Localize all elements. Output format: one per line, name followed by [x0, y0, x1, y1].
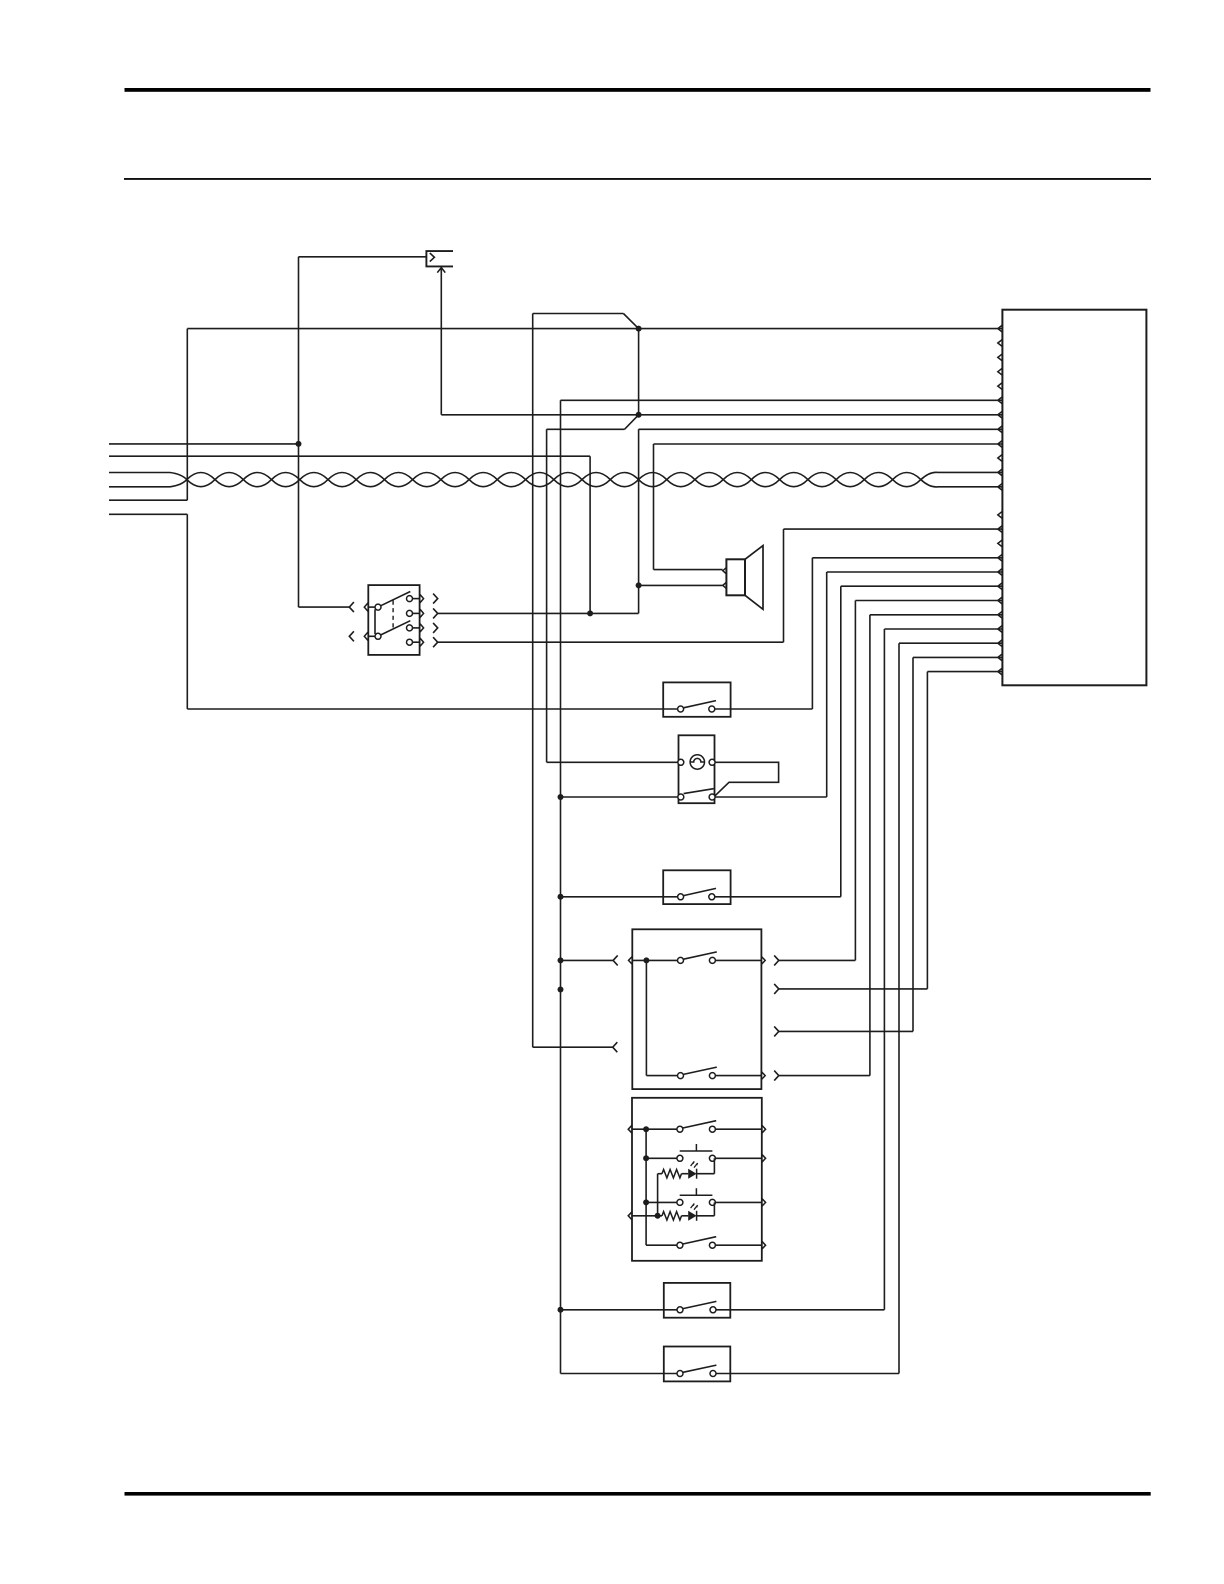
connector half relay out4 — [433, 637, 438, 647]
ignition contact top-right — [709, 759, 715, 765]
ignition lever — [684, 789, 714, 794]
S4 switch1 lever — [683, 952, 716, 959]
switch S6 lever — [683, 1301, 716, 1308]
LED D1 — [688, 1169, 696, 1179]
twisted pair strand B (pins 11/12) — [109, 472, 1002, 487]
relay in1 stub — [368, 606, 375, 608]
junction S4 inner bus — [643, 957, 649, 963]
LED D1 cathode bar — [696, 1169, 698, 1179]
wire S4 out1 to pin19 riser — [779, 959, 856, 961]
wire pin20 riser — [869, 615, 871, 1076]
connector half relay out3 — [433, 623, 438, 633]
S5 LED1 lead right — [697, 1173, 715, 1175]
S5 LED1 riser — [657, 1174, 659, 1216]
ignition key circle — [690, 755, 704, 769]
wire branch x546 horizontal — [547, 428, 625, 430]
S5 row D wire — [632, 1215, 662, 1217]
connector C1 pin 13 — [998, 511, 1003, 518]
wire switch S3 to pin18 riser — [715, 896, 841, 898]
resistor R1 — [662, 1170, 682, 1178]
junction pin1/bus — [636, 326, 642, 332]
relay throw contact 1 — [407, 596, 413, 602]
connector half relay in2 (unused) — [349, 631, 354, 641]
switch S6 contact b — [710, 1307, 716, 1313]
connector C1 pin 7 — [998, 411, 1003, 418]
relay throw contact 3 — [407, 625, 413, 631]
relay pole 2 contact — [375, 633, 381, 639]
S5 button B actuator — [680, 1144, 713, 1151]
bottom thick rule — [125, 1492, 1151, 1496]
wire pin 9 run — [654, 443, 1003, 445]
connector J1 chevron — [430, 253, 435, 262]
connector C1 pin 11 — [998, 469, 1003, 476]
wire S4 input 1 — [561, 959, 614, 961]
wire riser W2 left — [186, 514, 188, 709]
relay throw contact 4 — [407, 639, 413, 645]
S5 button C contact a — [677, 1199, 683, 1205]
junction pin7/bus — [636, 412, 642, 418]
connector C1 pin 5 — [998, 383, 1003, 390]
wire S4 input 2 — [533, 1046, 613, 1048]
wire pin 21 run — [884, 628, 1002, 630]
relay K1 pin out3 — [420, 623, 424, 632]
wire pin 24 run — [927, 671, 1002, 673]
S5 button B contact b — [709, 1155, 715, 1161]
ignition switch S2 body — [679, 735, 715, 803]
wire pin 17 run — [827, 571, 1003, 573]
relay K1 body — [368, 585, 419, 655]
S5 LED2 lead mid — [682, 1215, 689, 1217]
wire pin 7 run — [441, 414, 1002, 416]
S4 switch1 contact b — [709, 957, 715, 963]
wire riser feed2 down — [589, 456, 591, 613]
connector C1 pin 4 — [998, 368, 1003, 375]
top thin rule — [124, 178, 1151, 180]
wire pin 18 run — [841, 585, 1003, 587]
wire bus vertical upper — [638, 329, 640, 415]
wire switch S3 feed — [561, 896, 678, 898]
S5 pin out B — [762, 1154, 766, 1162]
connector C1 pin 10 — [998, 454, 1003, 461]
S4 row4 inner wire — [646, 1075, 677, 1077]
switch S1 contact a — [678, 706, 684, 712]
S5 pin in A — [628, 1125, 632, 1133]
S5 row A out stub — [715, 1128, 761, 1130]
junction x560 (spare tap) — [558, 987, 564, 993]
switch S3 lever — [684, 888, 717, 895]
wire pin 1 run — [187, 328, 1002, 330]
relay lever 1 — [381, 592, 411, 606]
speaker SP1 driver — [726, 559, 745, 595]
wire long riser x532 — [532, 314, 534, 1048]
arrowhead into J1 — [437, 268, 445, 273]
wire riser relay out4 — [783, 529, 785, 642]
wire relay out4 run — [438, 641, 784, 643]
switch S7 contact a — [677, 1371, 683, 1377]
wire speaker plus — [654, 569, 723, 571]
connector C1 pin 15 — [998, 540, 1003, 547]
connector C1 pin 19 — [998, 597, 1003, 604]
wire feed 2 (long run to relay net) — [109, 455, 590, 457]
S4 pin in1 — [629, 956, 633, 964]
LED D2 — [688, 1211, 696, 1221]
connector C1 pin 12 — [998, 483, 1003, 490]
junction S5 bus/rowC — [643, 1199, 649, 1205]
wire pin16 riser — [811, 558, 813, 709]
connector half relay out1 — [433, 594, 438, 604]
connector half S4 out4 — [774, 1071, 779, 1081]
wire pin 22 run — [899, 642, 1002, 644]
switch S3 contact b — [709, 894, 715, 900]
relay in2 stub — [368, 635, 375, 637]
wire switch S6 feed — [561, 1309, 678, 1311]
wire switch S6 to pin21 riser — [716, 1309, 884, 1311]
junction speaker negative — [636, 582, 642, 588]
S5 branch rowC to LED2 — [713, 1202, 715, 1215]
S5 row B wire — [646, 1157, 677, 1159]
connector C1 pin 22 — [998, 640, 1003, 647]
ignition contact bottom-right — [709, 794, 715, 800]
ignition contact top-left — [678, 759, 684, 765]
wire switch S7 to pin22 riser — [716, 1373, 899, 1375]
connector C1 pin 20 — [998, 611, 1003, 618]
wire ignition feed — [547, 761, 678, 763]
connector half S4 out2 — [774, 984, 779, 994]
S5 switch E contact a — [677, 1242, 683, 1248]
junction feed2/relay out2 — [587, 610, 593, 616]
wire switch S7 feed — [561, 1373, 678, 1375]
wire pin17 riser — [826, 572, 828, 797]
S5 button C contact b — [709, 1199, 715, 1205]
wire feed 6 (to bottom run) — [109, 513, 187, 515]
connector C1 pin 3 — [998, 354, 1003, 361]
wire pin22 riser — [898, 643, 900, 1373]
S4 pin out1 — [761, 956, 765, 964]
S5 row C wire — [646, 1201, 677, 1203]
speaker SP1 terminal + — [723, 568, 727, 574]
S5 switch A contact a — [677, 1126, 683, 1132]
speaker SP1 terminal - — [723, 582, 727, 588]
wire relay out2 run — [438, 612, 639, 614]
connector half S4 in1 — [613, 955, 618, 965]
wire vertical from J1 feed — [298, 257, 300, 607]
wire ignition out to pin17 riser — [715, 796, 827, 798]
junction x560/S3 — [558, 894, 564, 900]
relay lever 2 — [381, 621, 411, 635]
LED D2 cathode bar — [696, 1211, 698, 1221]
S5 pin out A — [762, 1125, 766, 1133]
wire branch top (x532 riser top) — [533, 313, 624, 315]
wire pin 14 run — [784, 528, 1003, 530]
S5 row C out stub — [715, 1201, 761, 1203]
relay K1 pin in1 — [364, 603, 368, 612]
connector half S4 out3 — [774, 1026, 779, 1036]
wire riser W1 left — [186, 329, 188, 501]
wire switch S1 to pin16 riser — [715, 708, 813, 710]
wire feed 1 (to junction at vertical bus) — [109, 443, 299, 445]
relay K1 pin out1 — [420, 594, 424, 603]
wire ignition accessory loop — [715, 762, 779, 796]
switch S7 body — [664, 1347, 731, 1382]
S5 switch A lever — [683, 1121, 716, 1128]
bevel join to pin7 net — [625, 415, 639, 430]
connector C1 pin 8 — [998, 426, 1003, 433]
top thick rule — [125, 88, 1151, 92]
wire pin 16 run — [812, 557, 1002, 559]
wire pin 20 run — [870, 614, 1003, 616]
resistor R2 — [662, 1212, 682, 1220]
wire ignition bottom-left — [561, 796, 678, 798]
wire pin 8 run — [639, 428, 1003, 430]
switch S3 contact a — [678, 894, 684, 900]
junction x560/S4 in1 — [558, 957, 564, 963]
bevel join to pin1 net — [623, 314, 638, 329]
wire riser x560 bus — [560, 400, 562, 1373]
junction S5 rowD/LED1 riser — [655, 1213, 661, 1219]
S5 row E wire — [646, 1244, 677, 1246]
connector C1 pin 18 — [998, 583, 1003, 590]
wire speaker minus — [639, 584, 723, 586]
relay K1 pin out2 — [420, 609, 424, 618]
connector half S4 in2 — [613, 1042, 618, 1052]
S5 row E out stub — [715, 1244, 761, 1246]
relay K1 pin out4 — [420, 638, 424, 647]
relay pole 1 contact — [375, 604, 381, 610]
connector C1 pin 2 — [998, 339, 1003, 346]
junction S5 bus/rowA — [643, 1126, 649, 1132]
S5 row B out stub — [715, 1157, 761, 1159]
S5 branch rowB to LED1 — [713, 1158, 715, 1173]
relay pole link bar — [374, 609, 376, 634]
S4 switch2 lever — [683, 1067, 716, 1074]
wire S4 out3 to pin23 riser — [779, 1030, 913, 1032]
relay out1 stub — [413, 598, 420, 600]
S4 inner bus vertical — [645, 960, 647, 1075]
wire relay input 1 — [299, 606, 350, 608]
S4 switch2 contact b — [709, 1073, 715, 1079]
switch S1 lever — [684, 701, 717, 708]
S5 pin out C — [762, 1198, 766, 1206]
connector C1 pin 23 — [998, 654, 1003, 661]
S5 pin out E — [762, 1241, 766, 1249]
wire S4 out2 to pin24 riser — [779, 988, 928, 990]
junction S5 bus/rowB — [643, 1155, 649, 1161]
relay out3 stub — [413, 627, 420, 629]
switch S3 body — [663, 870, 730, 904]
S5 button C actuator — [680, 1188, 713, 1195]
connector C1 pin 14 — [998, 526, 1003, 533]
S5 switch E lever — [683, 1237, 716, 1244]
S4 switch2 contact a — [678, 1073, 684, 1079]
ignition key symbol — [690, 758, 704, 762]
S5 LED1 lead mid — [682, 1173, 689, 1175]
connector C1 pin 21 — [998, 625, 1003, 632]
S5 switch A contact b — [709, 1126, 715, 1132]
junction feed1/J1 riser — [296, 441, 302, 447]
twisted pair strand A (pins 11/12) — [109, 473, 1002, 487]
S5 row A wire — [632, 1128, 677, 1130]
connector C1 pin 16 — [998, 554, 1003, 561]
connector half relay out2 — [433, 608, 438, 618]
switch S6 contact a — [677, 1307, 683, 1313]
wire riser to speaker plus — [653, 444, 655, 570]
wire pin 6 run — [561, 399, 1003, 401]
connector C1 main harness — [1002, 310, 1146, 686]
connector C1 pin 17 — [998, 568, 1003, 575]
S4 row4 out stub — [715, 1075, 761, 1077]
wire pin19 riser — [854, 601, 856, 961]
wire pin24 riser — [926, 672, 928, 989]
connector half relay in1 — [349, 602, 354, 612]
connector J1 bracket — [426, 251, 453, 266]
relay out4 stub — [413, 641, 420, 643]
speaker SP1 cone — [745, 546, 763, 610]
S4 pin out4 — [761, 1072, 765, 1080]
connector C1 pin 9 — [998, 440, 1003, 447]
LED D1 emission arrows — [691, 1161, 698, 1167]
connector C1 pin 1 — [998, 325, 1003, 332]
switch S1 body — [663, 682, 730, 716]
wire bottom run to switch S1 — [187, 708, 677, 710]
S5 LED2 lead right — [697, 1215, 715, 1217]
wire bus vertical lower — [638, 429, 640, 613]
relay K1 pin in2 — [364, 632, 368, 641]
connector C1 pin 6 — [998, 397, 1003, 404]
S4 switch1 contact a — [678, 957, 684, 963]
S5 pin in D — [628, 1212, 632, 1220]
switch S7 contact b — [710, 1371, 716, 1377]
connector half S4 out1 — [774, 955, 779, 965]
relay out2 stub — [413, 612, 420, 614]
junction x560/S6 — [558, 1307, 564, 1313]
ignition contact bottom-left — [678, 794, 684, 800]
switch S6 body — [664, 1283, 731, 1318]
junction x560/ignition — [558, 794, 564, 800]
wire pin18 riser — [840, 586, 842, 897]
LED D2 emission arrows — [691, 1204, 698, 1210]
S5 LED1 lead left — [658, 1173, 662, 1175]
switch assembly S5 body — [632, 1098, 762, 1261]
wire S4 out4 to pin20 riser — [779, 1075, 870, 1077]
wire pin23 riser — [912, 657, 914, 1031]
S5 inner bus vertical — [645, 1129, 647, 1245]
wire up-arrow vertical (pin 7 net) — [440, 268, 442, 415]
wire pin21 riser — [883, 629, 885, 1310]
S5 switch E contact b — [709, 1242, 715, 1248]
switch S7 lever — [683, 1365, 716, 1372]
connector C1 pin 24 — [998, 668, 1003, 675]
switch S1 contact b — [709, 706, 715, 712]
S4 row1 out stub — [715, 959, 761, 961]
switch assembly S4 body — [632, 929, 761, 1089]
S5 button B contact a — [677, 1155, 683, 1161]
relay throw contact 2 — [407, 610, 413, 616]
wire to connector J1 — [299, 256, 427, 258]
wire pin 23 run — [913, 656, 1002, 658]
wire riser x546 to ignition — [546, 429, 548, 762]
wire pin 19 run — [855, 600, 1002, 602]
wire feed 5 (to pin 1 riser) — [109, 499, 187, 501]
relay mechanical link (dashed) — [392, 601, 394, 630]
S4 row1 inner wire — [632, 959, 677, 961]
